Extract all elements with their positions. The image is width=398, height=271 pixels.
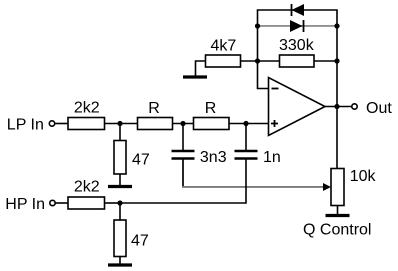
svg-text:1n: 1n xyxy=(263,149,281,166)
wire R2 to op-amp non-inverting input xyxy=(229,123,269,125)
wire R1 to R2 xyxy=(173,123,194,125)
wire left rail down to op-amp inverting input xyxy=(258,26,269,89)
svg-text:Q Control: Q Control xyxy=(303,222,371,239)
junction dot left of diode row xyxy=(255,23,260,28)
wire op-amp output to rail and Out terminal xyxy=(325,106,352,108)
resistor 2k2 (LP) xyxy=(68,118,105,130)
diode D1 (points left) xyxy=(292,4,305,16)
junction dot right of diode row xyxy=(334,23,339,28)
terminal Out xyxy=(352,104,357,109)
wire node D down to 47 xyxy=(119,203,121,220)
junction node A xyxy=(117,121,122,126)
svg-text:LP In: LP In xyxy=(7,116,44,133)
capacitor 3n3 xyxy=(172,151,195,159)
wire node A down to 47 xyxy=(119,124,121,141)
ground under 47 (HP) xyxy=(108,263,132,266)
wire LP In to 2k2 xyxy=(55,123,68,125)
junction dot 4k7 / left rail xyxy=(255,58,260,63)
wire top loop for diode D1 xyxy=(258,10,338,26)
wire to pot wiper xyxy=(182,186,324,188)
junction node B xyxy=(180,121,185,126)
wire 3n3 bottom down xyxy=(182,159,184,188)
svg-text:330k: 330k xyxy=(279,37,315,54)
svg-text:R: R xyxy=(205,100,217,117)
diode D2 (points right) xyxy=(290,20,304,32)
svg-text:4k7: 4k7 xyxy=(211,38,237,55)
svg-text:47: 47 xyxy=(131,232,149,249)
wire 47 to ground xyxy=(119,174,121,186)
resistor R2 xyxy=(194,118,230,130)
junction dot output / right rail xyxy=(334,104,339,109)
wire 2k2 to node D xyxy=(105,202,121,204)
wire HP In to 2k2 xyxy=(55,202,68,204)
terminal LP In xyxy=(49,121,54,126)
resistor R1 xyxy=(138,118,173,130)
svg-text:R: R xyxy=(148,100,160,117)
svg-text:47: 47 xyxy=(132,151,150,168)
svg-text:3n3: 3n3 xyxy=(200,149,227,166)
wire node B down to 3n3 xyxy=(182,124,184,152)
svg-text:2k2: 2k2 xyxy=(74,178,100,195)
svg-text:Out: Out xyxy=(366,100,392,117)
wire 47 to ground xyxy=(119,257,121,264)
resistor 47 (LP shunt) xyxy=(114,141,126,175)
resistor 47 (HP shunt) xyxy=(114,220,126,257)
wire right rail down to potentiometer xyxy=(336,26,338,169)
terminal HP In xyxy=(50,200,55,205)
resistor 2k2 (HP) xyxy=(68,197,105,209)
ground under potentiometer xyxy=(326,214,350,217)
svg-text:2k2: 2k2 xyxy=(74,100,100,117)
ground under 4k7 xyxy=(183,75,207,78)
potentiometer 10k xyxy=(323,169,344,206)
resistor 4k7 xyxy=(196,55,258,76)
svg-text:10k: 10k xyxy=(350,168,377,185)
wire diode row 2 xyxy=(258,25,338,27)
ground under 47 (LP) xyxy=(108,185,132,188)
junction node D xyxy=(117,200,122,205)
junction node C xyxy=(243,121,248,126)
capacitor 1n xyxy=(235,151,258,159)
wire 1n bottom to HP row xyxy=(120,159,246,204)
wire 2k2 to R1 xyxy=(105,123,138,125)
op-amp U1 xyxy=(269,78,326,136)
wire node C down to 1n xyxy=(245,124,247,152)
junction dot 330k / right rail xyxy=(334,58,339,63)
svg-text:HP In: HP In xyxy=(5,196,45,213)
wire pot bottom to ground xyxy=(337,206,339,215)
resistor 330k xyxy=(258,55,338,67)
